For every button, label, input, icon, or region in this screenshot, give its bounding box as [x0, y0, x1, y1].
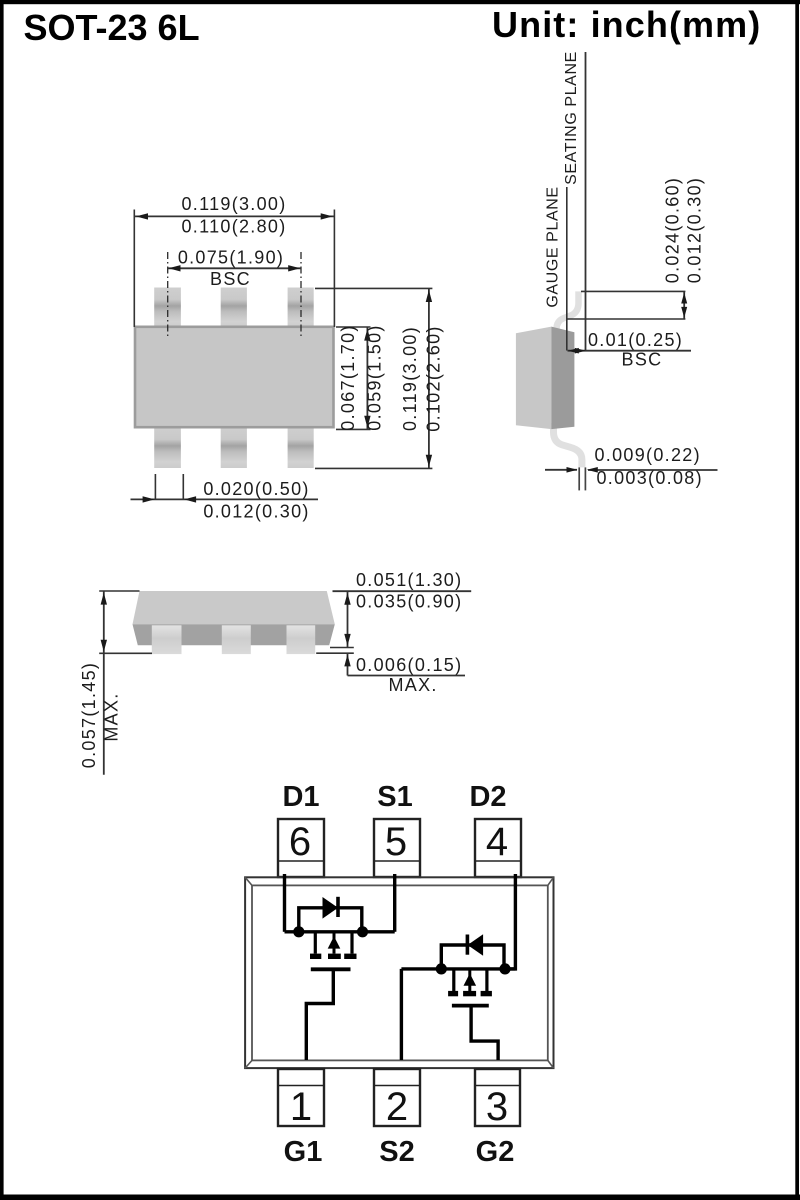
right tick top / underline: [333, 590, 472, 592]
svg-text:MAX.: MAX.: [102, 692, 122, 741]
arrowhead at seating plane: [575, 348, 586, 354]
arrowhead down: [364, 416, 370, 428]
left tick top: [99, 590, 139, 592]
Q2 gate wire to pin 3: [471, 1007, 498, 1060]
arrow right pointing left at lead tip: [587, 467, 598, 473]
pin box 1: [278, 1069, 324, 1129]
side view body front face: [516, 327, 552, 430]
dim line for 0.024 upper: [581, 290, 685, 292]
svg-text:Unit: inch(mm): Unit: inch(mm): [492, 4, 761, 45]
arrowhead down: [101, 640, 107, 652]
lower lead (light, behind body): [554, 423, 582, 467]
Q1 node dot right: [357, 926, 368, 937]
Q1 node dot left: [293, 926, 304, 937]
Q1 body-diode loop wire: [299, 908, 362, 932]
front pin 3: [287, 625, 316, 654]
pin box 5: [374, 819, 420, 877]
side view body side face: [551, 327, 574, 430]
Q1 gate wire to pin 1: [306, 971, 333, 1060]
dimension line 0.020/0.012: [131, 498, 319, 500]
Q2 gate bar: [452, 1004, 489, 1008]
svg-text:0.012(0.30): 0.012(0.30): [685, 177, 705, 283]
right vertical dim line: [347, 591, 349, 647]
Q2 body arrow (pointing up): [464, 969, 477, 991]
pin P5 bottom-middle lead: [221, 427, 247, 468]
upper lead (light, behind body): [557, 291, 579, 336]
Q2 node dot left: [436, 963, 447, 974]
pin P1 top-left lead: [154, 288, 181, 328]
pin box 4: [475, 819, 521, 877]
separator line 0.009/0.003: [588, 469, 718, 471]
pin box 2: [374, 1069, 420, 1129]
extension line pins top right: [315, 287, 432, 289]
svg-text:0.009(0.22): 0.009(0.22): [595, 445, 701, 465]
centerline left pin (dash-dot): [167, 252, 169, 336]
small vertical below with up arrow: [347, 653, 349, 675]
extension line right for width dim: [333, 210, 335, 328]
left tick seating: [99, 652, 152, 654]
svg-text:0.024(0.60): 0.024(0.60): [663, 177, 683, 283]
svg-text:1: 1: [290, 1085, 312, 1129]
front pin 1: [152, 625, 182, 654]
svg-text:SEATING PLANE: SEATING PLANE: [563, 51, 580, 185]
lead tip cross-section lines: [578, 467, 580, 490]
extension line pin edge left: [154, 474, 156, 499]
svg-text:G2: G2: [476, 1136, 515, 1168]
svg-text:BSC: BSC: [210, 269, 251, 289]
arrowhead down: [426, 455, 432, 467]
Q1 drain channel stub: [314, 932, 317, 954]
svg-text:D2: D2: [469, 781, 506, 813]
svg-text:0.006(0.15): 0.006(0.15): [356, 655, 462, 675]
arrowhead left: [136, 213, 148, 219]
left vertical dim line: [103, 591, 105, 775]
arrowhead up: [364, 329, 370, 341]
arrowhead pointing left at pin right edge: [184, 496, 196, 502]
svg-text:0.075(1.90): 0.075(1.90): [178, 248, 284, 268]
svg-text:0.012(0.30): 0.012(0.30): [203, 502, 309, 522]
arrowhead down: [681, 307, 687, 318]
pin box 3: [475, 1069, 520, 1129]
svg-text:0.119(3.00): 0.119(3.00): [181, 194, 286, 214]
seating plane line: [585, 52, 587, 351]
arrowhead up: [681, 293, 687, 304]
Q2 source wire to pin 2: [400, 969, 403, 1060]
Q2 node dot right: [499, 963, 510, 974]
svg-text:S1: S1: [377, 781, 412, 813]
svg-text:SOT-23 6L: SOT-23 6L: [24, 7, 200, 48]
underline 0.006: [348, 675, 466, 677]
svg-text:MAX.: MAX.: [389, 675, 438, 695]
dimension line 0.119/0.110: [134, 215, 334, 217]
svg-text:0.051(1.30): 0.051(1.30): [356, 570, 462, 590]
Q1 channel segment right: [344, 954, 356, 959]
Q2 channel segment left: [448, 991, 458, 996]
svg-text:0.067(1.70): 0.067(1.70): [338, 324, 358, 430]
svg-text:0.01(0.25): 0.01(0.25): [588, 330, 683, 350]
arrowhead pointing right at pin left edge: [143, 496, 155, 502]
svg-text:0.057(1.45): 0.057(1.45): [79, 662, 99, 768]
arrowhead right: [321, 213, 333, 219]
svg-text:S2: S2: [379, 1136, 414, 1168]
extension line pins bottom right: [315, 467, 432, 469]
pin P3 top-right lead: [288, 288, 314, 328]
Q2 source channel stub: [485, 969, 488, 991]
front view body lower band: [133, 624, 335, 645]
dim line for 0.024 lower: [567, 318, 686, 320]
extension line left for width dim: [133, 210, 135, 328]
Q1 channel segment middle: [328, 954, 341, 959]
Q1 gate bar: [311, 967, 351, 971]
Q1 body diode D1 (anode left, pointing right): [323, 897, 339, 919]
Q2 drain channel stub: [452, 969, 455, 991]
bevel corner top-left: [245, 877, 252, 885]
Q2 top rail wire: [401, 967, 515, 970]
centerline right pin (dash-dot): [300, 252, 302, 336]
svg-text:0.035(0.90): 0.035(0.90): [356, 592, 462, 612]
arrowhead down: [344, 634, 350, 646]
Q1 channel segment left: [310, 954, 321, 959]
svg-text:G1: G1: [284, 1136, 323, 1168]
bevel corner bottom-left: [245, 1060, 252, 1068]
IC inner frame: [252, 885, 548, 1060]
front pin 2: [222, 625, 251, 654]
svg-text:6: 6: [289, 820, 311, 864]
svg-text:0.003(0.08): 0.003(0.08): [597, 468, 703, 488]
dimension line 0.119 vertical: [428, 288, 430, 468]
underline for 0.01(0.25): [568, 350, 692, 352]
Q2 channel segment middle: [463, 991, 476, 996]
dimension line 0.067 vertical: [366, 327, 368, 429]
vertical dim line 0.024/0.012: [683, 291, 685, 319]
pin P4 bottom-left lead: [154, 427, 181, 468]
pin box 6: [278, 819, 324, 877]
Q2 body-diode loop wire: [441, 945, 504, 969]
svg-text:0.119(3.00): 0.119(3.00): [400, 326, 420, 431]
Q1 source wire to pin 5: [393, 874, 396, 932]
arrowhead up: [344, 593, 350, 605]
extension line body top right: [336, 326, 371, 328]
svg-text:2: 2: [386, 1085, 408, 1129]
svg-text:4: 4: [486, 820, 508, 864]
svg-text:0.110(2.80): 0.110(2.80): [181, 217, 286, 237]
svg-text:3: 3: [486, 1085, 508, 1129]
package body top view: [135, 327, 334, 427]
svg-text:0.059(1.50): 0.059(1.50): [365, 324, 385, 430]
svg-text:D1: D1: [282, 781, 319, 813]
extension line pin edge right: [182, 474, 184, 499]
svg-text:BSC: BSC: [622, 350, 663, 370]
arrowhead up: [101, 593, 107, 605]
bevel corner top-right: [548, 877, 554, 885]
svg-text:5: 5: [385, 820, 407, 864]
gauge plane line: [566, 187, 568, 351]
svg-text:GAUGE PLANE: GAUGE PLANE: [545, 186, 562, 307]
svg-text:0.102(2.60): 0.102(2.60): [424, 325, 444, 431]
arrowhead up: [426, 290, 432, 302]
Q2 channel segment right: [481, 991, 492, 996]
pin P6 bottom-right lead: [288, 427, 314, 468]
svg-text:0.020(0.50): 0.020(0.50): [203, 479, 309, 499]
front view body upper part: [133, 591, 335, 624]
pin P2 top-middle lead: [221, 288, 247, 328]
tick B pin bottom: [330, 647, 354, 649]
arrow left pointing right at lead tip: [545, 469, 577, 471]
Q1 source channel stub: [350, 932, 353, 954]
Q2 drain wire from pin 4: [505, 874, 515, 969]
arrowhead BSC right: [288, 265, 300, 271]
extension line body bottom right: [336, 428, 371, 430]
tick C seating: [316, 652, 354, 654]
IC outer frame: [245, 877, 553, 1068]
Q1 body arrow (pointing up): [328, 932, 341, 954]
Q2 body diode D2 (cathode left, pointing left): [467, 934, 483, 956]
dimension line BSC pitch: [168, 267, 301, 269]
bevel corner bottom-right: [548, 1060, 554, 1068]
arrowhead at gauge plane: [568, 348, 579, 354]
Q1 top rail wire: [285, 930, 395, 933]
Q1 drain wire from pin 6: [283, 874, 286, 932]
arrowhead BSC left: [169, 265, 181, 271]
